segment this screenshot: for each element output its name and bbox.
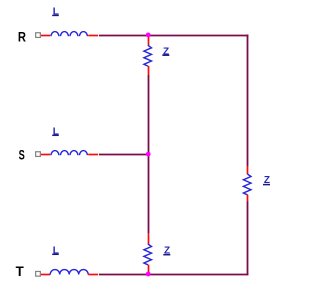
wire right vertical lower <box>247 201 249 275</box>
impedance Z1 lead bottom <box>148 66 150 76</box>
impedance Z3 zigzag <box>144 244 152 265</box>
port R <box>36 33 41 38</box>
impedance Z3 lead bottom <box>148 265 150 274</box>
inductor L3 coil (T phase) <box>50 270 88 275</box>
junction node T (middle branch to T wire) <box>146 272 151 277</box>
svg-text:R: R <box>18 29 26 44</box>
label L (R phase inductor) <box>52 7 59 18</box>
impedance Z3 lead top (middle branch bottom) <box>148 233 150 244</box>
inductor L1 coil (R phase) <box>51 32 88 37</box>
wire middle vertical (Z1 to Z3) <box>148 75 150 233</box>
impedance Z2 lead top (right branch) <box>247 166 249 174</box>
inductor L3 lead left (T phase) <box>41 274 50 276</box>
junction node R (R wire to middle branch) <box>146 33 151 38</box>
wire right vertical upper <box>247 35 249 167</box>
inductor L1 lead left (R phase) <box>41 35 50 37</box>
port S <box>36 152 41 157</box>
port T <box>36 271 41 276</box>
impedance Z1 lead top (middle branch) <box>148 36 150 46</box>
svg-text:S: S <box>19 146 25 163</box>
inductor L2 lead left (S phase) <box>41 154 50 156</box>
label S <box>19 146 25 163</box>
impedance Z2 zigzag <box>243 174 251 195</box>
wire T horizontal <box>99 274 249 276</box>
label L (T phase inductor) <box>52 245 59 256</box>
label R <box>18 29 26 44</box>
inductor L2 lead right (S phase) <box>88 154 98 156</box>
label T <box>16 264 25 279</box>
label Z1 <box>162 46 169 57</box>
inductor L1 lead right (R phase) <box>88 35 98 37</box>
inductor L2 coil (S phase) <box>51 151 88 156</box>
junction node S (S wire to middle branch) <box>146 152 151 157</box>
label Z3 <box>163 245 170 256</box>
inductor L3 lead right (T phase) <box>88 274 98 276</box>
label L (S phase inductor) <box>52 126 59 137</box>
svg-text:T: T <box>16 264 25 279</box>
impedance Z2 lead bottom <box>247 195 249 202</box>
label Z2 <box>263 175 270 186</box>
wire R horizontal <box>99 35 249 37</box>
wire S horizontal <box>99 154 149 156</box>
impedance Z1 zigzag <box>144 45 152 66</box>
